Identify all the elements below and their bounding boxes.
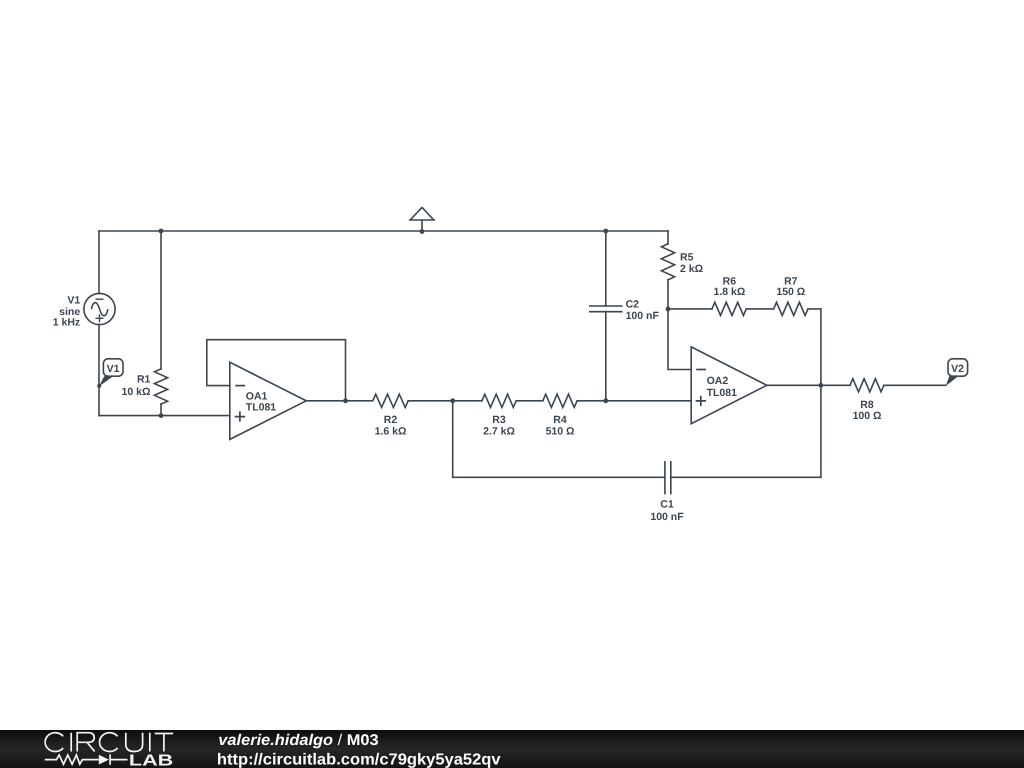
svg-text:150 Ω: 150 Ω bbox=[776, 286, 805, 298]
capacitor C1 bbox=[665, 462, 671, 494]
node dot R2 R3 C1 junction bbox=[450, 398, 455, 403]
wire top bus bbox=[99, 230, 668, 232]
svg-text:2 kΩ: 2 kΩ bbox=[680, 263, 703, 275]
resistor R7 bbox=[774, 302, 808, 315]
logo CIRCUIT wordmark bbox=[45, 733, 173, 752]
wire OA2 output bbox=[767, 384, 850, 386]
wire OA1 feedback loop bbox=[207, 340, 346, 401]
svg-text:R1: R1 bbox=[137, 374, 151, 386]
node dot ground on bus bbox=[420, 229, 425, 234]
wire R1 bottom lead bbox=[160, 404, 162, 416]
wire V1 bottom lead bbox=[98, 325, 100, 416]
resistor R4 bbox=[543, 394, 577, 407]
resistor R6 bbox=[712, 302, 746, 315]
svg-text:OA1: OA1 bbox=[246, 390, 268, 402]
svg-text:R2: R2 bbox=[384, 414, 398, 426]
wire V1 top lead bbox=[98, 231, 100, 294]
node dot R1 top bus bbox=[159, 229, 164, 234]
ground / power symbol bbox=[421, 220, 423, 232]
wire C2 top lead bbox=[605, 231, 607, 306]
svg-text:valerie.hidalgo / M03: valerie.hidalgo / M03 bbox=[218, 732, 379, 749]
wire R1 top lead bbox=[160, 231, 162, 369]
svg-text:1.8 kΩ: 1.8 kΩ bbox=[714, 286, 746, 298]
svg-text:TL081: TL081 bbox=[246, 402, 277, 414]
wire R4 to OA2 noninverting input bbox=[577, 400, 691, 402]
svg-text:TL081: TL081 bbox=[707, 387, 738, 399]
svg-text:V2: V2 bbox=[951, 363, 964, 375]
svg-text:R3: R3 bbox=[492, 414, 506, 426]
resistor R2 bbox=[373, 394, 409, 407]
flag V2 pointer bbox=[946, 376, 959, 386]
flag V1 box bbox=[103, 359, 123, 376]
svg-text:10 kΩ: 10 kΩ bbox=[122, 386, 151, 398]
wire R5 bottom lead bbox=[667, 280, 669, 309]
svg-text:OA2: OA2 bbox=[707, 375, 729, 387]
capacitor C2 bbox=[590, 306, 622, 312]
wire OA2 inverting input branch bbox=[668, 309, 691, 370]
logo resistor-diode glyph bbox=[45, 754, 128, 764]
node dot C2 top bus bbox=[603, 229, 608, 234]
svg-text:V1: V1 bbox=[67, 294, 80, 306]
wire C2 bottom lead bbox=[605, 312, 607, 401]
svg-text:C1: C1 bbox=[660, 499, 674, 511]
wire R5 top lead bbox=[667, 231, 669, 244]
svg-text:100 nF: 100 nF bbox=[626, 310, 660, 322]
flag V1 pointer bbox=[99, 376, 113, 386]
voltage source V1 bbox=[84, 293, 115, 324]
node dot R5 bottom junction bbox=[666, 307, 671, 312]
svg-text:R4: R4 bbox=[553, 414, 567, 426]
svg-text:V1: V1 bbox=[107, 363, 120, 375]
node dot R1 bottom bbox=[159, 413, 164, 418]
wire C1 left branch bbox=[453, 401, 665, 478]
wire OA1 output bbox=[306, 400, 373, 402]
svg-text:100 nF: 100 nF bbox=[650, 511, 684, 523]
svg-text:R5: R5 bbox=[680, 251, 694, 263]
wire R6 to R7 bbox=[746, 308, 773, 310]
svg-text:510 Ω: 510 Ω bbox=[546, 426, 575, 438]
svg-text:LAB: LAB bbox=[129, 753, 173, 768]
node dot OA1 output tap bbox=[343, 398, 348, 403]
wire C1 right branch bbox=[671, 385, 821, 477]
wire node to R6 bbox=[668, 308, 712, 310]
node dot output node bbox=[819, 383, 824, 388]
resistor R1 bbox=[154, 369, 167, 404]
op-amp OA1 bbox=[230, 362, 306, 439]
wire R3 to R4 bbox=[516, 400, 543, 402]
node dot C2 bottom junction bbox=[603, 398, 608, 403]
wire bottom input run bbox=[99, 415, 230, 417]
wire R2 to R3 bbox=[408, 400, 482, 402]
svg-text:100 Ω: 100 Ω bbox=[853, 410, 882, 422]
svg-text:1.6 kΩ: 1.6 kΩ bbox=[375, 426, 407, 438]
wire R7 to output node bbox=[808, 309, 821, 385]
op-amp OA2 bbox=[691, 347, 767, 424]
svg-text:2.7 kΩ: 2.7 kΩ bbox=[483, 426, 515, 438]
flag V2 box bbox=[948, 359, 968, 376]
svg-text:1 kHz: 1 kHz bbox=[53, 317, 80, 329]
wire R8 to V2 flag bbox=[884, 384, 946, 386]
svg-text:http://circuitlab.com/c79gky5y: http://circuitlab.com/c79gky5ya52qv bbox=[217, 752, 501, 768]
resistor R3 bbox=[482, 394, 516, 407]
resistor R8 bbox=[850, 379, 884, 392]
resistor R5 bbox=[661, 244, 674, 280]
svg-text:C2: C2 bbox=[626, 298, 640, 310]
